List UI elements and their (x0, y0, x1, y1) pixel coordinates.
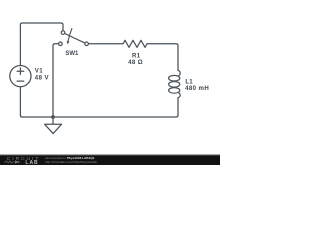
wire bottom rail up to V1 minus (20, 87, 22, 117)
wire switch right throw to resistor R1 (88, 43, 123, 45)
inductor L1 (169, 70, 181, 98)
wire bottom rail (22, 116, 176, 118)
watermark bar (0, 155, 220, 165)
svg-text:48 Ω: 48 Ω (128, 59, 143, 66)
wire inductor L1 bottom to bottom rail (176, 98, 178, 117)
svg-text:48 V: 48 V (35, 75, 50, 82)
voltage source V1 (10, 66, 31, 87)
switch SW1 (59, 29, 89, 46)
svg-text:LAB: LAB (25, 160, 38, 165)
svg-text:V1: V1 (35, 67, 43, 74)
svg-text:480 mH: 480 mH (185, 85, 209, 92)
wire switch left throw stub down to bottom rail (53, 44, 59, 117)
node junction on bottom rail (51, 115, 55, 119)
wire resistor R1 to inductor L1 top (147, 44, 178, 71)
CircuitLab logo symbol (4, 161, 20, 163)
svg-text:SW1: SW1 (65, 51, 79, 57)
svg-text:http://circuitlab.com/c/b2e5w/: http://circuitlab.com/c/b2e5w/yswfe0d/ (45, 160, 97, 164)
wire top rail from V1+ to switch pole (20, 23, 63, 65)
resistor R1 (123, 40, 147, 47)
ground (45, 117, 62, 134)
